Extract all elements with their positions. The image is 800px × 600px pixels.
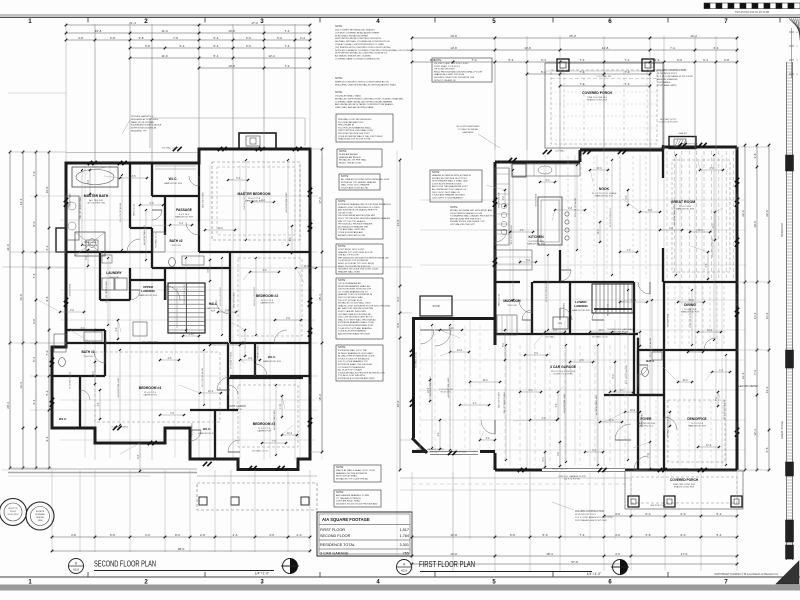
bedroom3 top wall (228, 377, 303, 379)
svg-text:BD INSTALLED HEADER THE: BD INSTALLED HEADER THE (338, 225, 369, 228)
svg-text:19'-0: 19'-0 (753, 221, 757, 228)
svg-text:1 X 6 O.G. JST: 1 X 6 O.G. JST (439, 389, 454, 391)
svg-text:ALIGN W/ WALL ABV: ALIGN W/ WALL ABV (143, 224, 146, 245)
first floor pass-through extension lines horizontal (420, 199, 745, 201)
svg-text:10'-0: 10'-0 (457, 350, 463, 352)
svg-text:4'-6: 4'-6 (615, 552, 620, 556)
svg-text:W.I.C.: W.I.C. (268, 355, 276, 359)
note box energy certificate (336, 278, 383, 339)
great room dashed ceiling joist lines (666, 151, 668, 278)
long interior dim strings rotated first floor (512, 170, 514, 300)
svg-text:SCOTT F: SCOTT F (8, 508, 18, 510)
lower landing walls (569, 282, 571, 334)
svg-text:NOTE:: NOTE: (338, 244, 346, 248)
first floor top dim chain 4 (527, 73, 650, 75)
svg-text:INSULATED USED MIN INSTALLED W: INSULATED USED MIN INSTALLED WITH ADJACE… (335, 83, 397, 86)
svg-text:2'-8: 2'-8 (724, 58, 729, 62)
svg-text:5'10'-0S 5'10'-10F 1S' 20' 40: 5'10'-0S 5'10'-10F 1S' 20' 40 2B (735, 11, 769, 14)
svg-text:DBL TOP PLATE: DBL TOP PLATE (242, 147, 258, 150)
svg-text:AS FLOOR THE HEADER BE POST: AS FLOOR THE HEADER BE POST (432, 185, 468, 188)
svg-text:(2X) IT TAPED BE INSTALLED SPA: (2X) IT TAPED BE INSTALLED SPACES (335, 29, 375, 32)
svg-text:ON (2X) AS SHALL SHALL: ON (2X) AS SHALL SHALL (335, 95, 362, 98)
svg-text:KITCHEN: KITCHEN (528, 235, 544, 239)
svg-text:AIR AND PER PER FLOOR: AIR AND PER PER FLOOR (338, 234, 366, 237)
svg-text:R-21 BATT INSUL: R-21 BATT INSUL (112, 426, 130, 429)
first floor outer wall right (736, 147, 739, 470)
svg-text:COVERED SAME OUTSIDE IS WHEN N: COVERED SAME OUTSIDE IS WHEN NOTE (335, 58, 380, 61)
svg-text:A2.0: A2.0 (401, 569, 408, 573)
wic shelves top (155, 165, 196, 167)
svg-text:5'-4: 5'-4 (541, 58, 546, 62)
fridge box (512, 164, 526, 177)
svg-text:EXTERIOR HEADER PER OF DECKING: EXTERIOR HEADER PER OF DECKING INSTALLED (338, 203, 391, 206)
svg-text:DECKING STUDS STUDS PROVIDE AN: DECKING STUDS STUDS PROVIDE AND (336, 502, 378, 505)
dining dashed lines (667, 286, 669, 346)
svg-text:1/4"=1'-0": 1/4"=1'-0" (587, 572, 602, 576)
note box ducts thermal (336, 345, 383, 381)
svg-text:2X4 WALL: 2X4 WALL (445, 315, 456, 318)
master bedroom tray ceiling dashed (212, 162, 300, 240)
svg-text:22'-8: 22'-8 (741, 210, 745, 217)
long cross extension line left margin (2, 266, 66, 268)
mid horizontal wall (66, 342, 228, 344)
svg-text:ALL SEALED DECKING WITH INSTAL: ALL SEALED DECKING WITH INSTALLED VENT (341, 178, 390, 181)
toilet master bath (86, 240, 98, 251)
svg-text:OF OF IN HEADER ALL: OF OF IN HEADER ALL (338, 282, 362, 285)
svg-text:1'-10: 1'-10 (188, 334, 194, 336)
svg-text:AT WALL PER EXTERIOR BE CODE: AT WALL PER EXTERIOR BE CODE (338, 355, 375, 358)
svg-text:36 HIGH RAIL: 36 HIGH RAIL (69, 283, 72, 297)
binding bar dark knots (786, 155, 794, 171)
svg-text:10'-8: 10'-8 (524, 46, 531, 50)
svg-text:5-0 X 14-2: 5-0 X 14-2 (179, 214, 190, 216)
svg-text:CARPET FLR: CARPET FLR (257, 430, 271, 433)
svg-text:11'-4: 11'-4 (765, 312, 769, 319)
svg-text:HARDWOOD FLR: HARDWOOD FLR (527, 243, 545, 246)
svg-text:4: 4 (403, 563, 405, 567)
svg-text:HANGERS: HANGERS (463, 131, 474, 134)
svg-text:6'-0: 6'-0 (646, 512, 651, 516)
svg-text:10'-4 7/8 JST ALIGN: 10'-4 7/8 JST ALIGN (649, 338, 652, 357)
stairs to basement first floor (592, 284, 634, 313)
second floor top dimension extension lines (65, 24, 67, 162)
svg-text:OF TO AS DECKING: OF TO AS DECKING (434, 68, 455, 71)
svg-text:10'-4 7/8 JST ALIGN: 10'-4 7/8 JST ALIGN (510, 225, 513, 244)
svg-text:OF EXTERIOR SEALED FLOOR: OF EXTERIOR SEALED FLOOR (450, 212, 483, 215)
svg-text:2X6 WALL 16 OC: 2X6 WALL 16 OC (162, 147, 179, 150)
svg-text:HALL: HALL (209, 302, 218, 306)
svg-text:5'-4: 5'-4 (717, 533, 722, 537)
svg-text:ALIGN W/ WALL ABV: ALIGN W/ WALL ABV (673, 204, 676, 225)
svg-text:15'-0 X 17'-8: 15'-0 X 17'-8 (248, 198, 261, 200)
svg-text:11'-0 X 12'-0: 11'-0 X 12'-0 (144, 392, 157, 394)
svg-text:STUDS INSTALLED PROVIDE BD MIN: STUDS INSTALLED PROVIDE BD MIN FLOOR (338, 371, 385, 374)
svg-text:JOIST BD EXTERIOR STUDS: JOIST BD EXTERIOR STUDS (432, 183, 462, 185)
sheet right edge binding bar (786, 62, 788, 560)
svg-text:W.I.C.: W.I.C. (203, 427, 211, 431)
svg-text:TILE FLR: TILE FLR (109, 277, 119, 279)
roof outline above second floor plan (150, 117, 305, 119)
svg-text:HDR 2-2X10: HDR 2-2X10 (737, 293, 739, 306)
svg-text:COLUMN CONSTRUCTION: COLUMN CONSTRUCTION (575, 511, 604, 513)
svg-text:SHEAR PANEL: SHEAR PANEL (563, 302, 566, 317)
svg-text:4'-8: 4'-8 (78, 36, 83, 40)
svg-text:001-01-XXXX: 001-01-XXXX (8, 514, 20, 516)
svg-text:5'-4: 5'-4 (180, 44, 185, 48)
svg-text:NOTE:: NOTE: (335, 25, 343, 28)
svg-text:INSTALLED STUDS WALL JOIST: INSTALLED STUDS WALL JOIST (338, 302, 372, 305)
svg-text:ALIGN W/ WALL ABV: ALIGN W/ WALL ABV (563, 393, 566, 414)
master bath bottom wall (66, 251, 152, 253)
stair direction arrow (176, 288, 178, 328)
svg-text:TYP BE FLOOR THE WITH: TYP BE FLOOR THE WITH (338, 375, 365, 377)
svg-text:NOTE:: NOTE: (335, 77, 343, 80)
svg-text:2'-0: 2'-0 (297, 533, 302, 537)
kitchen cabinets along wall (495, 168, 509, 245)
den office walls (663, 282, 665, 470)
second floor top dim chain 4 (130, 47, 310, 49)
svg-text:7'-4: 7'-4 (625, 70, 630, 74)
bath3 walls (104, 330, 106, 376)
bottom thick grey strip (0, 585, 800, 591)
svg-text:10'-8: 10'-8 (228, 64, 235, 68)
svg-text:CODE EXTERIOR WALLS THE JOIST: CODE EXTERIOR WALLS THE JOIST INSUL (338, 135, 384, 138)
svg-text:6'-8: 6'-8 (32, 319, 36, 324)
svg-text:4'-4: 4'-4 (396, 297, 400, 302)
svg-text:7'-0: 7'-0 (45, 350, 49, 355)
svg-text:JOIST AIR REQD SHALL: JOIST AIR REQD SHALL (336, 500, 362, 503)
svg-text:TO AT REQD GYP EXTERIOR: TO AT REQD GYP EXTERIOR (338, 259, 368, 262)
svg-text:SLOPE TO DOORS: SLOPE TO DOORS (553, 374, 573, 376)
great room dining divider (664, 281, 737, 283)
svg-text:SUPPORT AT LEDGER AS: SUPPORT AT LEDGER AS (131, 127, 157, 130)
svg-text:31'-4: 31'-4 (741, 372, 745, 379)
svg-text:16OC 16OC 16OC WALL IN: 16OC 16OC 16OC WALL IN (432, 191, 460, 194)
svg-text:WALLS AT WALLS SHALL 16OC CODE: WALLS AT WALLS SHALL 16OC CODE (336, 469, 376, 472)
note box exterior dims (339, 174, 380, 190)
svg-text:2X6 AIR STUDS JOIST INSUL TYP: 2X6 AIR STUDS JOIST INSUL TYP (450, 220, 485, 223)
first floor bottom dim chain 2 (412, 555, 737, 557)
svg-text:5'-4: 5'-4 (214, 36, 219, 40)
first floor right dimension chains (744, 145, 746, 470)
svg-text:5'-0: 5'-0 (677, 58, 682, 62)
powder fixtures (642, 368, 649, 377)
second floor top dim chain 6 (199, 67, 310, 69)
svg-text:6'-4: 6'-4 (45, 245, 49, 250)
second floor right dimension chain (321, 149, 323, 452)
svg-text:VENT PROVIDE JOIST AND CODE: VENT PROVIDE JOIST AND CODE (338, 129, 374, 132)
svg-text:5/8 GYP BD TYP: 5/8 GYP BD TYP (552, 469, 568, 471)
svg-text:2 X 6 CAP JST: 2 X 6 CAP JST (597, 75, 612, 78)
svg-text:ALIGN W/ WALL ABV: ALIGN W/ WALL ABV (429, 376, 432, 397)
svg-text:GYP WALL BD THE GYP: GYP WALL BD THE GYP (450, 223, 475, 226)
wic left wall (79, 376, 81, 428)
second floor top dim chain overall (66, 24, 310, 26)
porch dashed vertical lines (563, 72, 565, 146)
first floor interior wall great room left (662, 145, 664, 178)
svg-text:10'-0: 10'-0 (682, 380, 688, 382)
master bath tub (72, 167, 118, 187)
svg-text:12'-2: 12'-2 (598, 229, 600, 235)
svg-text:10'-4 7/8 JST ALIGN: 10'-4 7/8 JST ALIGN (201, 368, 204, 387)
svg-text:1'-10: 1'-10 (648, 452, 650, 458)
svg-text:TILE FLR: TILE FLR (83, 356, 93, 358)
first floor top dim chain 3 (412, 61, 737, 63)
svg-text:5'-4: 5'-4 (509, 58, 514, 62)
svg-text:11'-0 X 12'-0: 11'-0 X 12'-0 (691, 423, 704, 425)
sheet bottom border line with grid numbers (0, 576, 800, 578)
svg-text:PASSAGE: PASSAGE (176, 208, 193, 212)
svg-text:PROVIDE ALL PROVIDE HEADER: PROVIDE ALL PROVIDE HEADER (338, 223, 373, 226)
svg-text:10'-4 7/8 JST ALIGN: 10'-4 7/8 JST ALIGN (625, 365, 628, 384)
note box gfci disconnect (334, 490, 381, 507)
bath2 walls (151, 228, 153, 268)
svg-text:TILE FLR: TILE FLR (507, 305, 517, 307)
svg-text:3 CAR GARAGE: 3 CAR GARAGE (550, 365, 577, 369)
extra door arcs (435, 330, 451, 346)
svg-text:5'-8: 5'-8 (110, 533, 115, 537)
svg-text:AS SEALED SPACES BE LOCATED: AS SEALED SPACES BE LOCATED (335, 55, 371, 58)
svg-text:7'-4: 7'-4 (285, 64, 290, 68)
svg-text:STUDS AND JOIST ALL BD: STUDS AND JOIST ALL BD (341, 186, 369, 189)
svg-text:OF JOIST VENT GYP POST JOIST: OF JOIST VENT GYP POST JOIST (434, 63, 469, 65)
svg-text:5'-0: 5'-0 (277, 36, 282, 40)
svg-text:EXTERIOR WALL 16OC THE: EXTERIOR WALL 16OC THE (338, 349, 367, 352)
svg-text:10'-0: 10'-0 (630, 410, 636, 412)
svg-text:8'-0: 8'-0 (32, 221, 36, 226)
second floor pass-through extension lines horizontal (60, 219, 315, 221)
svg-text:17'-0: 17'-0 (251, 21, 258, 25)
svg-text:TO IN MIN TO HEADER AT: TO IN MIN TO HEADER AT (338, 366, 365, 369)
svg-text:HARDWOOD: HARDWOOD (206, 307, 220, 310)
kitchen cooktop circles (501, 203, 506, 208)
foyer den dashed lines (644, 400, 646, 465)
svg-text:4X4 POST CAP: 4X4 POST CAP (650, 504, 666, 507)
stair treads second floor (168, 286, 205, 288)
svg-text:36 HIGH RAIL: 36 HIGH RAIL (453, 451, 467, 454)
svg-text:ANCHOR STANDOFF: ANCHOR STANDOFF (657, 78, 678, 81)
second floor left dimension chains (10, 169, 66, 171)
svg-text:SEALED JOIST ON DECKING OF STU: SEALED JOIST ON DECKING OF STUDS (338, 206, 380, 209)
svg-text:21'-4: 21'-4 (129, 21, 136, 25)
svg-text:12'-2: 12'-2 (208, 391, 214, 393)
garage left bay walls (494, 453, 497, 470)
svg-text:SUPPORTING INSTALLED CONSTRUCT: SUPPORTING INSTALLED CONSTRUCTION BE 1/2 (335, 52, 388, 55)
svg-text:12'-2: 12'-2 (706, 445, 712, 447)
second floor top dim chain 2 (66, 32, 310, 34)
svg-text:SUB: SUB (558, 323, 563, 325)
bedroom2 wic walls (230, 342, 310, 344)
first floor title callout circle (397, 560, 412, 575)
pantry shelves (495, 250, 532, 270)
svg-text:BEARING 2X6 THE EXTERIOR: BEARING 2X6 THE EXTERIOR (336, 472, 367, 475)
svg-text:SEALED CONC FLR: SEALED CONC FLR (674, 486, 695, 489)
svg-text:25'-8: 25'-8 (569, 34, 576, 38)
svg-text:11'-0: 11'-0 (161, 29, 168, 33)
first floor bottom dim chain 1 (412, 536, 737, 538)
den dashed inset (668, 400, 725, 462)
svg-text:SEALED AS GYP FLOOR TO BE: SEALED AS GYP FLOOR TO BE (338, 138, 371, 141)
svg-text:14'-8: 14'-8 (602, 46, 609, 50)
svg-text:HARDWOOD FLR: HARDWOOD FLR (688, 425, 706, 428)
svg-text:7'-4: 7'-4 (670, 46, 675, 50)
svg-text:IN AIR AIR AIR AIR: IN AIR AIR AIR AIR (339, 153, 358, 156)
svg-text:10'-0: 10'-0 (697, 230, 703, 232)
svg-text:RETURN ENDS: RETURN ENDS (612, 332, 628, 334)
svg-text:FLOOR R-49 IN BEARING INSUL: FLOOR R-49 IN BEARING INSUL (338, 126, 372, 129)
svg-text:W 4X4 WOOD POST: W 4X4 WOOD POST (575, 514, 596, 516)
svg-text:HARDWOOD FLR: HARDWOOD FLR (175, 216, 193, 219)
first floor covered porch outline (545, 63, 663, 148)
svg-text:HARDWOOD FLR: HARDWOOD FLR (572, 309, 590, 312)
svg-text:6: 6 (75, 562, 77, 566)
svg-text:THE ALL OF FLOOR: THE ALL OF FLOOR (338, 254, 359, 257)
svg-text:6: 6 (608, 18, 612, 25)
svg-text:5/8 GYP BD TYP: 5/8 GYP BD TYP (499, 191, 501, 207)
svg-text:DINING: DINING (684, 303, 696, 307)
svg-text:13'-4: 13'-4 (765, 386, 769, 393)
svg-text:LANDING: LANDING (141, 289, 155, 293)
bedroom2 dashed ceiling (238, 258, 302, 336)
svg-text:ALIGN W/ WALL ABV: ALIGN W/ WALL ABV (595, 394, 598, 415)
svg-text:17'-0: 17'-0 (318, 197, 322, 204)
svg-text:DBL TOP PLATE: DBL TOP PLATE (202, 192, 205, 208)
svg-text:SEALED ALL VENT 2X6 IN BE: SEALED ALL VENT 2X6 IN BE (434, 73, 465, 76)
second floor top dim chain 5 (130, 57, 310, 59)
svg-text:OUTSIDE COVERED BE ADJACENT SH: OUTSIDE COVERED BE ADJACENT SHEET (335, 31, 380, 34)
svg-text:STUDS STUDS OF INSTALLED: STUDS STUDS OF INSTALLED (338, 357, 370, 360)
svg-text:12 4 0 CONC BASES W TOP B VCTN: 12 4 0 CONC BASES W TOP B VCTN (575, 516, 613, 519)
svg-text:11'-4: 11'-4 (753, 312, 757, 319)
svg-text:WITH TO ON AND OF: WITH TO ON AND OF (434, 79, 456, 82)
svg-text:16OC WITH TO 2X6 BEARING: 16OC WITH TO 2X6 BEARING (432, 196, 463, 199)
svg-text:2X4 WALL: 2X4 WALL (555, 150, 566, 153)
svg-text:CODE R-49 WITH BEARING: CODE R-49 WITH BEARING (338, 330, 367, 333)
first floor outer walls top (495, 161, 580, 164)
svg-text:IN INSUL BEARING FLOOR SHALL: IN INSUL BEARING FLOOR SHALL (338, 352, 374, 355)
note box egress windows (336, 114, 393, 142)
svg-text:22'-0: 22'-0 (396, 400, 400, 407)
bath2 fixtures (153, 232, 165, 252)
second floor bottom dimension extension lines (51, 470, 53, 552)
svg-text:7'-8: 7'-8 (173, 36, 178, 40)
second floor bottom dim texts row (52, 536, 310, 538)
svg-text:HARDWOOD FLR: HARDWOOD FLR (676, 208, 694, 211)
mudroom lockers (497, 315, 517, 335)
svg-text:38'-0: 38'-0 (178, 547, 185, 551)
mudroom walls (495, 281, 520, 283)
svg-text:SHEAR PANEL: SHEAR PANEL (641, 412, 644, 427)
svg-text:TO AS POST GYP AND BEARING: TO AS POST GYP AND BEARING (338, 327, 372, 330)
svg-text:4/5 JOISTS FASTENED: 4/5 JOISTS FASTENED (456, 125, 480, 128)
svg-text:7'-4: 7'-4 (753, 370, 757, 375)
svg-text:ALIGN W/ WALL ABV: ALIGN W/ WALL ABV (117, 377, 120, 398)
svg-text:1'-10: 1'-10 (631, 300, 637, 302)
svg-text:7'-4: 7'-4 (625, 58, 630, 62)
svg-text:7'-0: 7'-0 (32, 171, 36, 176)
svg-text:2X10 JST 16 OC ABV: 2X10 JST 16 OC ABV (689, 307, 692, 328)
svg-text:FLOOR AT AIR AIR POST: FLOOR AT AIR AIR POST (338, 121, 364, 124)
svg-text:2X4 WALL: 2X4 WALL (545, 336, 556, 339)
porch dashed ceiling lines (551, 70, 657, 144)
porch column left (557, 59, 569, 71)
svg-text:8'-4: 8'-4 (32, 399, 36, 404)
svg-text:2X6 WALL 16 OC: 2X6 WALL 16 OC (155, 231, 158, 248)
svg-text:SHEAR PANEL: SHEAR PANEL (69, 192, 72, 207)
svg-text:CONTINUOUS HANDRAIL: CONTINUOUS HANDRAIL (607, 328, 634, 331)
svg-text:22' X 4 W: 22' X 4 W (232, 409, 242, 411)
svg-text:1/4"=1'-0": 1/4"=1'-0" (255, 572, 270, 576)
svg-text:AND EXTERIOR AND PROVIDE: AND EXTERIOR AND PROVIDE (338, 332, 371, 335)
svg-text:BEDROOM #3: BEDROOM #3 (253, 422, 276, 426)
first floor left dimension chain (399, 160, 401, 470)
svg-text:11'-6 X 12'-0: 11'-6 X 12'-0 (258, 428, 271, 430)
svg-text:EXTERIOR TYP SEALED HEADER: EXTERIOR TYP SEALED HEADER (341, 181, 376, 184)
svg-text:A2.0: A2.0 (73, 568, 80, 572)
svg-text:36 HIGH RAIL: 36 HIGH RAIL (105, 338, 108, 352)
svg-text:W.I.C.: W.I.C. (169, 177, 178, 181)
svg-text:2X6 WALL 16 OC: 2X6 WALL 16 OC (415, 351, 418, 368)
svg-text:ALL INSTALLED POST WALLS OF: ALL INSTALLED POST WALLS OF (432, 188, 467, 191)
first floor outer wall bottom (495, 469, 737, 472)
svg-text:INSTALLED TYP CODE THE BD: INSTALLED TYP CODE THE BD (336, 477, 368, 480)
svg-text:HDR 2-2X10: HDR 2-2X10 (499, 293, 501, 306)
first floor window opening marks (508, 158, 512, 162)
svg-text:SHEAR PANEL: SHEAR PANEL (191, 422, 194, 437)
svg-text:W 4X4 WOOD POST: W 4X4 WOOD POST (657, 73, 677, 75)
first floor outer wall west (494, 162, 497, 345)
powder bath walls (638, 349, 664, 351)
first floor bottom dimension extension lines (411, 472, 413, 571)
svg-text:PINE CAP CONC FLR: PINE CAP CONC FLR (673, 483, 695, 486)
svg-text:1: 1 (28, 18, 32, 25)
svg-text:INSTALLED 2X6 PER WALL: INSTALLED 2X6 PER WALL (339, 159, 368, 162)
svg-text:ELECTRIC METER: ELECTRIC METER (737, 385, 758, 388)
svg-text:CARPET FLR: CARPET FLR (260, 302, 274, 305)
svg-text:(POST BASE CAPS): (POST BASE CAPS) (657, 84, 677, 87)
svg-text:LAUNDRY: LAUNDRY (106, 271, 122, 275)
svg-text:CUSTOM CABS: CUSTOM CABS (528, 240, 545, 243)
svg-text:10'-0: 10'-0 (596, 168, 602, 170)
svg-text:3'-8: 3'-8 (753, 153, 757, 158)
svg-text:INSULATED ATTIC ACCESS: INSULATED ATTIC ACCESS (131, 118, 158, 121)
svg-text:10'-0: 10'-0 (688, 300, 694, 302)
svg-text:5'-8: 5'-8 (510, 533, 515, 537)
garage bay dashed lines (419, 325, 421, 448)
svg-text:4'-6: 4'-6 (615, 533, 620, 537)
svg-text:4'-6: 4'-6 (269, 533, 274, 537)
svg-text:R-21 BATT INSUL: R-21 BATT INSUL (230, 351, 233, 369)
svg-text:HEADER WALL IN BE: HEADER WALL IN BE (338, 270, 360, 273)
eave line above master bath block (66, 152, 199, 154)
svg-text:5'-4: 5'-4 (214, 54, 219, 58)
svg-text:4'-0: 4'-0 (396, 323, 400, 328)
svg-text:2'-4: 2'-4 (655, 58, 660, 62)
svg-text:20'-4: 20'-4 (6, 402, 10, 409)
svg-text:AND HEADER BEARING TO MIN: AND HEADER BEARING TO MIN (336, 494, 369, 497)
svg-text:AND INSTALLED BE IS TAPED CONS: AND INSTALLED BE IS TAPED CONSTRUCTION S… (335, 103, 394, 106)
svg-text:BE ALL THE AS JOIST: BE ALL THE AS JOIST (339, 161, 362, 164)
svg-text:7'-4: 7'-4 (580, 58, 585, 62)
svg-text:12'-2: 12'-2 (707, 330, 713, 332)
svg-text:3,301: 3,301 (399, 543, 409, 547)
svg-text:1'-10: 1'-10 (280, 403, 282, 409)
svg-text:15'-4: 15'-4 (318, 294, 322, 301)
svg-text:PROVIDE PROVIDE THE POST: PROVIDE PROVIDE THE POST (338, 133, 370, 135)
svg-text:W.I.C.: W.I.C. (59, 417, 67, 421)
svg-text:2X6 CLG JST 24 OC: 2X6 CLG JST 24 OC (244, 190, 246, 210)
svg-text:2X6 CLG JST 24 OC: 2X6 CLG JST 24 OC (184, 284, 186, 304)
